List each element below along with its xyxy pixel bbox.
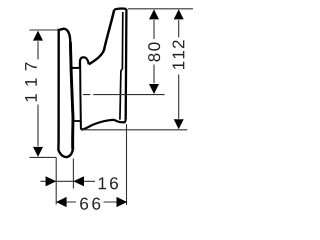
- lever back edge reinforcement: [70, 42, 73, 150]
- dim 117 line: [37, 41, 39, 146]
- dim 66 arrow right: [117, 197, 128, 207]
- dim 66 arrow left: [56, 197, 67, 207]
- dim 66 line: [56, 201, 127, 203]
- dim 117 text: [25, 94, 37, 101]
- dim 117 arrow up: [33, 31, 43, 41]
- dim 16 arrow left (outside right): [73, 176, 84, 186]
- dim 117 bottom reference line: [29, 156, 56, 158]
- body dome outer profile curve: [89, 10, 115, 65]
- dim 117 arrow down: [33, 147, 43, 157]
- dim 16 text: [99, 177, 106, 189]
- handle hub bump: [80, 57, 89, 67]
- dim 117 top reference line: [29, 29, 58, 31]
- dim 80/112 top reference line: [128, 8, 193, 10]
- dome front face line: [79, 61, 82, 129]
- dim 112 bottom reference line: [83, 129, 188, 131]
- dim 112 text: [173, 62, 185, 69]
- centerline (dash-dot axis): [83, 94, 165, 96]
- wall plate top edge: [114, 8, 126, 9]
- hub upper tick: [73, 67, 80, 69]
- dim 80 text: [148, 54, 160, 62]
- wall plate bottom edge: [114, 119, 126, 123]
- wall plate back edge: [125, 9, 128, 119]
- dome bottom lip and underside curve: [81, 120, 114, 130]
- dim 16 arrow right (outside left): [46, 176, 57, 186]
- dim 66 text: [80, 198, 88, 210]
- dim 16 line: [41, 180, 96, 182]
- dim 80 line: [153, 20, 155, 83]
- lever handle outline: [58, 29, 73, 157]
- wall extension line: [126, 124, 128, 205]
- lever front extension line: [55, 158, 57, 205]
- lever back extension line: [72, 159, 74, 189]
- dim 80 arrow down: [149, 84, 159, 94]
- dim 112 arrow down: [174, 119, 184, 129]
- hub lower tick: [74, 120, 81, 122]
- dim 112 arrow up: [174, 9, 184, 19]
- dim 112 line: [178, 20, 180, 119]
- wall plate front face line with kink: [120, 12, 123, 120]
- dim 80 arrow up: [149, 9, 159, 19]
